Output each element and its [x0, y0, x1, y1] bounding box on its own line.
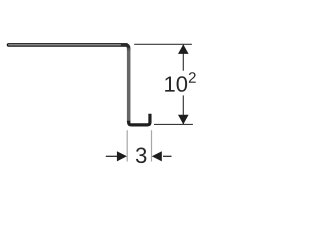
arrowhead up [178, 44, 189, 54]
right arrowhead (points left) [152, 151, 162, 161]
extension line right (for 3) [151, 130, 153, 161]
profile vertical web [127, 48, 131, 123]
label 3 [136, 148, 146, 164]
profile top-right bend [121, 45, 129, 49]
profile bottom hook (bend, bottom, lip) [129, 114, 150, 125]
extension line bottom (for 10) [154, 123, 193, 125]
extension line left (for 3) [126, 130, 128, 161]
profile top flange (hemmed sheet, outline with light core) [7, 44, 127, 46]
dimension line 10, lower segment [182, 95, 184, 124]
label 10 (dimension text) [165, 76, 187, 92]
right arrow tail [163, 155, 172, 157]
extension line top (for 10) [134, 43, 192, 45]
arrowhead down [178, 115, 189, 125]
label superscript 2 (footnote) [189, 72, 196, 82]
left arrow tail [106, 155, 118, 157]
left arrowhead (points right) [117, 151, 127, 161]
dimension line 10, upper segment [182, 44, 184, 70]
